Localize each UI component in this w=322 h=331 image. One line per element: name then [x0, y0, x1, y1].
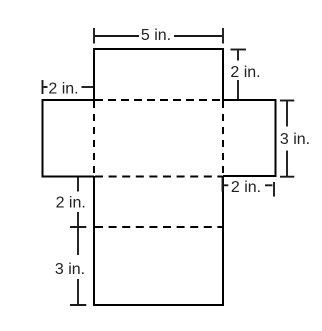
- right flap rectangle (solid outline): [223, 100, 276, 176]
- fold line left (dashed vertical): [93, 101, 95, 175]
- dimension 2 in. / 3 in. (bottom left vertical): [70, 177, 86, 305]
- svg-text:2 in.: 2 in.: [230, 64, 260, 81]
- svg-text:2 in.: 2 in.: [56, 195, 86, 212]
- left flap rectangle (solid outline): [43, 100, 95, 177]
- dimension 2 in. (top right vertical): [231, 50, 247, 100]
- dimension 3 in. (right vertical): [280, 101, 294, 177]
- svg-text:5 in.: 5 in.: [141, 27, 171, 44]
- fold line 3 (dashed horizontal): [95, 226, 223, 228]
- svg-text:2 in.: 2 in.: [231, 179, 261, 196]
- bottom column rectangle (solid outline): [94, 176, 223, 305]
- top face rectangle (solid outline): [94, 49, 223, 105]
- fold line right (dashed vertical): [222, 101, 224, 175]
- fold line 2 (dashed horizontal): [95, 176, 223, 178]
- svg-text:3 in.: 3 in.: [280, 131, 310, 148]
- dimension 2 in. (above left flap): [43, 80, 94, 94]
- fold line 1 (dashed horizontal): [95, 99, 223, 101]
- svg-text:2 in.: 2 in.: [48, 81, 78, 98]
- dimension 5 in. (top): [94, 28, 223, 44]
- svg-text:3 in.: 3 in.: [55, 261, 85, 278]
- dimension 2 in. (below right flap): [223, 177, 275, 197]
